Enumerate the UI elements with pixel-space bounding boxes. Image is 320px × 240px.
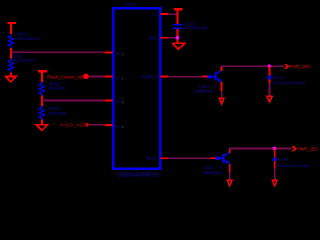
wire R102 to gnd bbox=[10, 72, 12, 76]
resistor R101 bbox=[8, 34, 13, 48]
svg-text:6: 6 bbox=[122, 125, 124, 129]
node circle connector bbox=[83, 74, 89, 80]
Q102 collector stub bbox=[229, 148, 231, 152]
svg-text:5: 5 bbox=[122, 101, 124, 105]
transistor Q2 pad bbox=[216, 157, 220, 161]
svg-text:R106: R106 bbox=[278, 157, 289, 162]
resistor R105 pad bbox=[267, 76, 271, 80]
power symbol VCC2 bbox=[38, 71, 47, 82]
Q102 emitter stub bbox=[229, 164, 231, 173]
wire OUT to Q102 base bbox=[168, 157, 210, 159]
svg-text:OUT: OUT bbox=[147, 156, 157, 161]
pin stub Gnd bbox=[161, 37, 169, 39]
pin stub IN1 bbox=[105, 51, 113, 53]
svg-text:LM2904DMR2G: LM2904DMR2G bbox=[117, 173, 159, 179]
resistor R106 pad bbox=[273, 157, 277, 161]
svg-text:PWR_LED: PWR_LED bbox=[298, 147, 318, 152]
svg-text:Gnd: Gnd bbox=[148, 36, 157, 41]
pin stub IN2 bbox=[105, 75, 113, 77]
wire Gnd pin to node bbox=[168, 37, 178, 39]
svg-text:3: 3 bbox=[122, 53, 124, 57]
svg-text:RES,49.9K,1%: RES,49.9K,1% bbox=[17, 36, 41, 41]
transistor Q101 bbox=[211, 70, 221, 82]
svg-text:MMBT3904: MMBT3904 bbox=[204, 171, 222, 175]
resistor R102 bbox=[8, 59, 13, 73]
pin stub IN4 bbox=[105, 124, 113, 126]
node B vertical bbox=[41, 96, 43, 107]
wire OUTPUT to Q101 base bbox=[168, 76, 203, 78]
wire Q102 collector to PWR_LED2 bbox=[229, 147, 292, 149]
svg-text:IN-: IN- bbox=[115, 76, 121, 80]
pin stub OUT bbox=[161, 157, 169, 159]
wire Q101 emitter down bbox=[221, 91, 223, 98]
Q101 emitter stub bbox=[221, 82, 223, 91]
svg-text:VrSO_430: VrSO_430 bbox=[60, 123, 86, 128]
svg-text:RES,1K5,5%,0402: RES,1K5,5%,0402 bbox=[277, 164, 309, 168]
wire Q101 collector to PWR_LED bbox=[221, 65, 284, 67]
ground arrow GA3 bbox=[227, 180, 232, 186]
svg-text:PWR_LED: PWR_LED bbox=[290, 64, 310, 69]
capacitor C102 bbox=[173, 24, 182, 26]
transistor Q102 bbox=[219, 152, 229, 164]
R106 top lead bbox=[274, 149, 276, 158]
R105 top lead bbox=[268, 66, 270, 75]
wire Q102 emitter down bbox=[229, 172, 231, 180]
ground GND3 bbox=[172, 43, 185, 49]
pin stub OUTPUT bbox=[161, 76, 169, 78]
wire W1 to IN pin1 bbox=[11, 51, 106, 53]
svg-text:R105: R105 bbox=[273, 75, 284, 80]
svg-text:IN+: IN+ bbox=[115, 52, 121, 56]
svg-text:RES,499K: RES,499K bbox=[49, 110, 67, 115]
ground GND1 bbox=[5, 76, 16, 82]
wire node A vertical bbox=[10, 48, 12, 59]
svg-text:CAP,100N,X5R: CAP,100N,X5R bbox=[183, 26, 208, 30]
power symbol VCC3 bbox=[174, 8, 183, 10]
svg-text:+V: +V bbox=[152, 12, 157, 17]
svg-text:RES,1K5,5%,0402: RES,1K5,5%,0402 bbox=[273, 81, 305, 85]
Q101 collector stub bbox=[220, 66, 222, 71]
Q101 base stub bbox=[203, 76, 208, 78]
junction dot bbox=[176, 36, 180, 40]
svg-text:MMBT3904: MMBT3904 bbox=[195, 89, 213, 93]
wire W2 to IN pin2 bbox=[89, 75, 106, 77]
svg-text:RES,499K: RES,499K bbox=[49, 85, 66, 90]
pin stub IN3 bbox=[105, 99, 113, 101]
ground arrow GA1 bbox=[219, 98, 224, 104]
Q102 base stub bbox=[210, 157, 216, 159]
svg-text:OUTPUT: OUTPUT bbox=[141, 75, 157, 80]
wire cap to gnd node bbox=[177, 29, 179, 43]
svg-text:RES,10.0K,1%: RES,10.0K,1% bbox=[11, 57, 35, 62]
ground GND2 bbox=[36, 125, 47, 131]
wire +V to rail bbox=[168, 13, 178, 15]
junction dot bbox=[268, 64, 272, 68]
offpage arrow glyph bbox=[292, 146, 298, 151]
ground arrow GA2 bbox=[267, 96, 272, 102]
svg-text:2: 2 bbox=[122, 77, 124, 81]
junction dot bbox=[273, 147, 277, 151]
ground arrow GA4 bbox=[272, 180, 277, 186]
svg-text:U101: U101 bbox=[124, 2, 136, 7]
svg-text:Q102: Q102 bbox=[204, 165, 215, 170]
wire W3 to IN pin3 bbox=[42, 99, 106, 101]
offpage arrow glyph bbox=[284, 64, 290, 69]
svg-text:Rated_Current_Adj: Rated_Current_Adj bbox=[47, 74, 83, 79]
offpage arrow glyph bbox=[85, 123, 90, 127]
op-amp U101 body bbox=[113, 8, 160, 168]
wire rail vertical bbox=[177, 10, 179, 24]
power symbol VCC1 bbox=[8, 23, 17, 34]
svg-text:IN+: IN+ bbox=[115, 100, 121, 104]
wire W4 to IN pin4 bbox=[89, 124, 105, 126]
resistor R104 bbox=[39, 106, 44, 120]
transistor Q1 pad bbox=[207, 75, 211, 79]
resistor R103 bbox=[39, 82, 44, 96]
svg-text:IN-: IN- bbox=[115, 124, 121, 128]
R105 bottom lead bbox=[268, 79, 270, 83]
R106 bottom lead bbox=[274, 161, 276, 169]
pin stub +V bbox=[161, 13, 169, 15]
wire R104 to gnd bbox=[41, 120, 43, 125]
